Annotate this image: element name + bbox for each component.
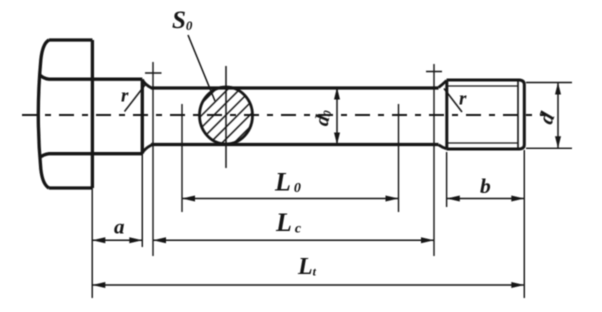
dimension line d bbox=[557, 83, 559, 149]
svg-text:d0: d0 bbox=[311, 108, 336, 128]
svg-text:S0: S0 bbox=[172, 7, 193, 34]
arrow Lt left bbox=[92, 282, 105, 288]
arrow b left bbox=[447, 196, 460, 202]
shank top edge bbox=[151, 86, 439, 89]
washer face under head bbox=[40, 75, 143, 159]
fillet r head-to-shank bottom bbox=[142, 145, 152, 153]
extension line from thread end bbox=[523, 150, 525, 298]
dimension line a bbox=[92, 239, 142, 241]
section circle S0 bbox=[200, 87, 253, 144]
arrow L0 right bbox=[386, 196, 399, 202]
leader line S0 bbox=[188, 35, 215, 101]
dimension line Lc bbox=[153, 239, 434, 241]
arrow Lt right bbox=[511, 282, 524, 288]
arrow Lc right bbox=[421, 237, 434, 243]
svg-text:r: r bbox=[121, 86, 129, 107]
extension line from head right face bbox=[91, 188, 93, 298]
arrow d bottom bbox=[555, 136, 561, 148]
svg-text:Lt: Lt bbox=[297, 254, 317, 280]
gauge mark extension left bbox=[181, 104, 183, 212]
tangent point mark left (cross) bbox=[145, 62, 162, 256]
extension line from bearing face bbox=[141, 154, 143, 248]
arrow L0 left bbox=[182, 196, 195, 202]
leader line r left bbox=[125, 85, 146, 112]
bolt hex head outline bbox=[38, 40, 92, 188]
hatching of section bbox=[160, 45, 296, 181]
svg-text:r: r bbox=[459, 89, 467, 110]
leader line r right bbox=[444, 89, 462, 113]
tangent point mark right (cross) bbox=[426, 64, 442, 256]
arrow Lc left bbox=[153, 237, 166, 243]
svg-text:b: b bbox=[480, 174, 491, 198]
dimension line L0 bbox=[182, 198, 399, 200]
shank bottom edge bbox=[151, 143, 439, 146]
thread chamfer line bbox=[517, 81, 519, 149]
arrow a right bbox=[129, 237, 142, 243]
dimension line b bbox=[447, 198, 525, 200]
fillet r head-to-shank top bbox=[142, 80, 152, 89]
arrow d0 top bbox=[334, 88, 340, 100]
svg-text:L0: L0 bbox=[274, 168, 301, 197]
extension line b left bbox=[446, 152, 448, 207]
thread minor diameter line top bbox=[448, 85, 518, 87]
arrowheads bbox=[92, 83, 561, 289]
dimension line d0 bbox=[336, 89, 338, 143]
gauge mark extension right bbox=[398, 104, 400, 212]
runout fillet to thread bottom bbox=[439, 145, 447, 149]
section circle vertical centerline bbox=[225, 66, 227, 168]
svg-text:d: d bbox=[533, 109, 559, 128]
thread minor diameter line bottom bbox=[448, 142, 518, 144]
threaded portion outline bbox=[447, 80, 525, 149]
svg-text:Lc: Lc bbox=[275, 208, 302, 237]
svg-text:a: a bbox=[114, 215, 125, 239]
runout fillet to thread top bbox=[439, 81, 447, 88]
arrow a left bbox=[92, 237, 105, 243]
arrow d0 bottom bbox=[334, 133, 340, 145]
centerline axis bbox=[22, 114, 546, 116]
arrow d top bbox=[555, 83, 561, 95]
dimension line Lt bbox=[92, 284, 524, 286]
extension lines d bbox=[526, 83, 572, 149]
arrow b right bbox=[511, 196, 524, 202]
